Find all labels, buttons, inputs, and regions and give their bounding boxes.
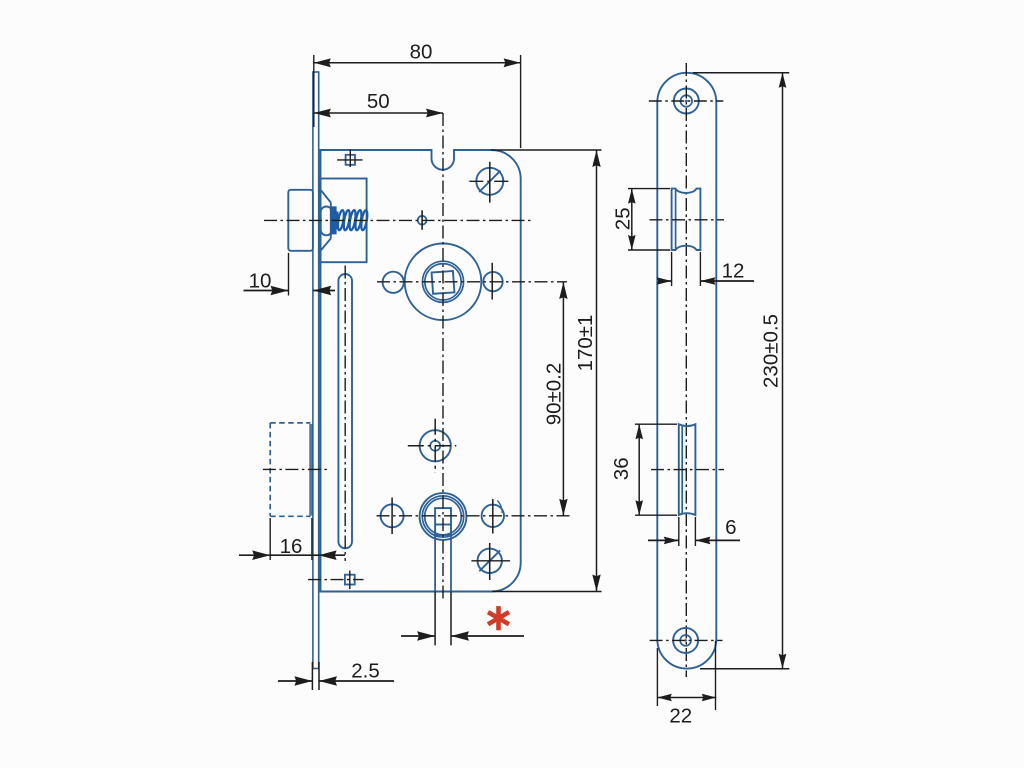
dim 80 line — [314, 62, 521, 64]
red asterisk (footnote mark) — [496, 606, 501, 630]
deadbolt slot inner edge — [681, 426, 683, 514]
dim 22 extension lines — [656, 648, 658, 706]
follower hub outer circle — [405, 243, 482, 320]
dim 36 extension lines — [635, 423, 677, 425]
bottom-right screw centermarks — [489, 543, 491, 580]
dim 25 extension lines — [628, 188, 670, 190]
latch opening centerline — [650, 219, 725, 221]
cylinder square hole — [435, 508, 451, 535]
deadbolt head front edge — [309, 424, 311, 516]
svg-text:16: 16 — [280, 535, 303, 558]
follower right ear circle — [483, 272, 502, 291]
dim 16 arrows — [239, 554, 270, 556]
cylinder left ear circle — [381, 504, 404, 527]
dim 170 line — [596, 150, 598, 592]
latch bolt head (protruding) — [288, 190, 313, 251]
latch bolt tail body — [321, 179, 367, 263]
svg-text:80: 80 — [410, 41, 433, 64]
top screw hole — [674, 89, 699, 114]
faceplate front view outline — [657, 73, 716, 669]
bottom screw hole — [673, 628, 698, 653]
svg-text:10: 10 — [249, 270, 272, 293]
dim 10 arrows — [244, 290, 289, 292]
dim 80 extension lines — [313, 55, 315, 127]
latch bolt chamfer lines — [321, 190, 331, 202]
latch spring screw head (filled) — [331, 206, 339, 234]
top-right screw centermarks — [489, 162, 491, 203]
main vertical centerline — [442, 113, 444, 600]
dim 230 extension lines — [693, 72, 790, 74]
dim 16 extension lines — [269, 518, 271, 560]
svg-text:50: 50 — [367, 90, 390, 113]
spring guide slot centerline — [344, 266, 346, 562]
latch spring screw threads — [337, 210, 345, 231]
svg-text:36: 36 — [610, 457, 633, 480]
cylinder profile lines to case bottom — [434, 535, 436, 592]
svg-text:12: 12 — [722, 259, 745, 282]
spring guide slot (long vertical) — [338, 274, 352, 548]
dim 2.5 extension lines — [311, 662, 313, 690]
bottom adjusting screw square — [345, 575, 355, 585]
dim 22 line — [657, 697, 716, 699]
middle hole vertical centermark — [434, 419, 436, 473]
dim star arrows — [401, 635, 435, 637]
dim 10 extension line — [288, 253, 290, 296]
deadbolt dashed outline — [269, 423, 271, 516]
latch opening outline — [672, 189, 701, 250]
svg-text:25: 25 — [612, 207, 635, 230]
middle hole horizontal centermark — [408, 445, 457, 447]
small pin hole vertical mark — [421, 210, 423, 230]
faceplate side view (lock front plate) — [313, 72, 319, 669]
latch axis centerline — [264, 219, 532, 221]
deadbolt slot outline — [679, 424, 696, 515]
faceplate vertical centerline — [685, 63, 687, 677]
cylinder right ear circle — [482, 505, 504, 527]
deadbolt slot centerline — [651, 469, 724, 471]
dim 25 line — [631, 189, 633, 250]
follower left ear circle — [383, 272, 404, 293]
cylinder hole circles — [420, 493, 467, 540]
svg-text:6: 6 — [725, 516, 736, 539]
dim 2.5 arrows — [278, 680, 312, 682]
latch opening inner edge — [675, 190, 677, 249]
top adjusting screw square — [346, 155, 355, 165]
dim 12 extension lines — [671, 252, 673, 286]
cylinder left ear vertical mark — [391, 498, 393, 535]
svg-text:2.5: 2.5 — [351, 659, 380, 682]
follower square spindle hole — [432, 271, 455, 294]
dim 90 line — [562, 282, 564, 516]
latch guide slot (rounded) — [321, 207, 332, 236]
top-right fixing screw hole — [476, 168, 503, 195]
follower hub inner double circle — [422, 261, 463, 302]
follower right ear vertical mark — [491, 263, 493, 300]
cylinder axis centerline — [377, 515, 571, 517]
cylinder right ear vertical mark — [492, 499, 494, 534]
lock case outline — [321, 150, 521, 592]
middle fixing hole — [420, 430, 451, 461]
top adjusting screw line — [337, 159, 362, 161]
small pin hole on latch axis — [418, 216, 427, 225]
svg-text:230±0.5: 230±0.5 — [759, 314, 782, 388]
svg-text:22: 22 — [669, 705, 692, 728]
top screw hole centerline — [649, 100, 724, 102]
dim 6 extension lines — [678, 517, 680, 546]
deadbolt centerline — [263, 468, 330, 470]
dim 12 arrows — [658, 280, 672, 282]
bottom screw hole centerline — [650, 639, 723, 641]
follower axis centerline — [377, 281, 567, 283]
dim star extension lines — [434, 592, 436, 646]
dim 36 line — [638, 424, 640, 515]
dim 230 line — [782, 73, 784, 669]
bottom adjusting screw line — [308, 579, 364, 581]
svg-text:170±1: 170±1 — [574, 315, 597, 372]
cylinder right ear spring wire — [497, 501, 502, 514]
dim 170 extension lines — [491, 149, 602, 151]
svg-text:90±0.2: 90±0.2 — [543, 363, 566, 426]
dim 6 arrows — [648, 539, 679, 541]
bottom-right fixing screw hole — [478, 549, 502, 573]
dim 50 line — [314, 112, 443, 114]
